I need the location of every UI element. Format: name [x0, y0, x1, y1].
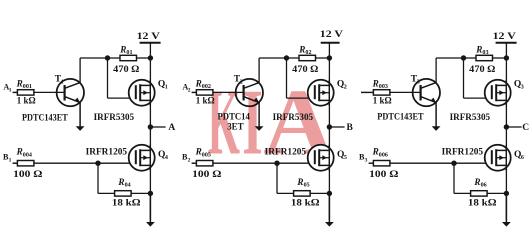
- label R06: [473, 177, 486, 189]
- power terminal +12V bar: [140, 42, 161, 44]
- wire: [13, 162, 18, 164]
- svg-text:5: 5: [344, 155, 347, 161]
- wire to rail: [316, 57, 330, 59]
- svg-text:12 V: 12 V: [137, 32, 160, 42]
- wire to R: [454, 192, 471, 194]
- svg-text:04: 04: [125, 183, 131, 189]
- label R05: [296, 177, 309, 189]
- label R003: [372, 78, 388, 90]
- svg-text:R: R: [195, 78, 202, 88]
- svg-text:1: 1: [9, 88, 12, 94]
- wire collector up: [258, 58, 260, 83]
- ground (source of Q): [325, 193, 334, 226]
- wire gate branch horizontal: [108, 97, 136, 99]
- svg-text:100 Ω: 100 Ω: [13, 170, 43, 180]
- node label B3: [359, 152, 368, 163]
- wire 12V rail / output column: [505, 43, 507, 220]
- junction gate/R: [274, 161, 279, 166]
- svg-text:2: 2: [344, 85, 347, 91]
- label R04: [117, 177, 130, 189]
- MOSFET Q4 (IRFR1205): [129, 145, 155, 171]
- svg-text:3: 3: [521, 85, 524, 91]
- svg-text:12 V: 12 V: [320, 30, 343, 40]
- ground (emitter of T1): [76, 103, 85, 131]
- junction node C: [504, 124, 509, 129]
- label T1: [55, 75, 64, 86]
- wire: [192, 162, 197, 164]
- svg-text:R: R: [16, 147, 23, 157]
- label Q5: [337, 150, 347, 161]
- svg-text:470 Ω: 470 Ω: [292, 65, 319, 75]
- wire to base: [34, 91, 65, 93]
- wire node B stub: [329, 126, 344, 128]
- resistor R006 (100 Ω): [373, 161, 390, 166]
- svg-text:PDTC14: PDTC14: [218, 113, 251, 123]
- label Q2: [337, 80, 347, 91]
- wire down to R: [453, 163, 455, 193]
- power terminal +12V bar: [496, 42, 517, 44]
- svg-text:PDTC143ET: PDTC143ET: [377, 113, 424, 123]
- svg-text:1: 1: [165, 85, 168, 91]
- svg-text:18 kΩ: 18 kΩ: [112, 199, 141, 209]
- svg-text:3ET: 3ET: [227, 122, 244, 132]
- node label A1: [3, 83, 11, 94]
- svg-text:B: B: [347, 123, 354, 133]
- label R005: [195, 147, 211, 159]
- svg-text:12 V: 12 V: [493, 32, 516, 42]
- wire down to R: [276, 163, 278, 193]
- svg-text:IRFR1205: IRFR1205: [86, 148, 128, 158]
- svg-text:004: 004: [23, 152, 32, 158]
- wire 12V rail / output column: [149, 43, 151, 220]
- wire node A stub: [150, 126, 165, 128]
- resistor R003 (1 kΩ): [373, 90, 390, 95]
- MOSFET Q1 (IRFR5305): [129, 80, 155, 106]
- resistor R001 (1 kΩ): [17, 90, 34, 95]
- wire gate branch horizontal: [464, 97, 492, 99]
- svg-text:1: 1: [9, 157, 12, 163]
- svg-text:005: 005: [202, 152, 211, 158]
- svg-text:IRFR1205: IRFR1205: [265, 148, 307, 158]
- svg-text:A: A: [168, 123, 175, 133]
- svg-text:R: R: [372, 147, 379, 157]
- junction rail/R bottom: [148, 191, 153, 196]
- wire to rail: [137, 57, 151, 59]
- junction collector/R/gate: [284, 55, 289, 60]
- svg-text:R: R: [298, 44, 305, 54]
- svg-text:R: R: [117, 177, 124, 187]
- svg-text:4: 4: [165, 155, 168, 161]
- svg-text:006: 006: [379, 152, 388, 158]
- wire: [369, 162, 374, 164]
- resistor R04 (18 kΩ): [115, 191, 132, 196]
- wire R to rail: [131, 192, 150, 194]
- svg-text:IRFR5305: IRFR5305: [273, 113, 314, 123]
- MOSFET Q2 (IRFR5305): [308, 80, 334, 106]
- MOSFET Q5 (IRFR1205): [308, 145, 334, 171]
- svg-text:IRFR1205: IRFR1205: [442, 148, 484, 158]
- label T3: [411, 75, 420, 86]
- svg-text:2: 2: [188, 157, 191, 163]
- wire collector up: [435, 58, 437, 83]
- wire to gate of bottom MOSFET: [213, 162, 315, 164]
- junction node B: [327, 124, 332, 129]
- svg-text:R: R: [473, 177, 480, 187]
- wire to gate of bottom MOSFET: [34, 162, 136, 164]
- label R01: [119, 44, 132, 56]
- label R006: [372, 147, 388, 159]
- junction rail/R bottom: [327, 191, 332, 196]
- svg-text:R: R: [475, 44, 482, 54]
- wire top: [80, 57, 120, 59]
- wire top: [259, 57, 299, 59]
- resistor R06 (18 kΩ): [471, 191, 488, 196]
- junction rail/R: [327, 55, 332, 60]
- svg-text:100 Ω: 100 Ω: [192, 170, 222, 180]
- svg-text:470 Ω: 470 Ω: [113, 65, 140, 75]
- node label B1: [3, 152, 12, 163]
- resistor R005 (100 Ω): [196, 161, 213, 166]
- label R001: [16, 78, 32, 90]
- svg-text:18 kΩ: 18 kΩ: [291, 199, 320, 209]
- junction collector/R/gate: [461, 55, 466, 60]
- label Q3: [514, 80, 524, 91]
- ground (source of Q): [146, 193, 155, 226]
- node label B2: [182, 152, 191, 163]
- svg-text:R: R: [119, 44, 126, 54]
- wire to R: [277, 192, 294, 194]
- svg-text:6: 6: [521, 155, 524, 161]
- wire: [192, 91, 197, 93]
- junction gate/R: [95, 161, 100, 166]
- transistor T3 (NPN PDTC143ET): [413, 79, 440, 106]
- svg-text:R: R: [296, 177, 303, 187]
- label Q4: [158, 150, 168, 161]
- junction rail/R bottom: [504, 191, 509, 196]
- svg-text:3: 3: [365, 157, 368, 163]
- label Q1: [158, 80, 168, 91]
- svg-text:R: R: [372, 78, 379, 88]
- wire down to R: [97, 163, 99, 193]
- wire top: [436, 57, 476, 59]
- transistor T2 (NPN PDTC143ET): [236, 79, 263, 106]
- junction rail/R: [504, 55, 509, 60]
- resistor R002 (1 kΩ): [196, 90, 213, 95]
- wire: [13, 91, 18, 93]
- wire gate branch vertical: [463, 58, 465, 98]
- wire R to rail: [310, 192, 329, 194]
- resistor R05 (18 kΩ): [294, 191, 311, 196]
- wire gate branch vertical: [107, 58, 109, 98]
- label T2: [234, 75, 243, 86]
- svg-text:18 kΩ: 18 kΩ: [468, 199, 497, 209]
- svg-text:IRFR5305: IRFR5305: [450, 113, 491, 123]
- label R002: [195, 78, 211, 90]
- svg-text:100 Ω: 100 Ω: [369, 170, 399, 180]
- MOSFET Q3 (IRFR5305): [485, 80, 511, 106]
- wire gate branch vertical: [286, 58, 288, 98]
- ground (emitter of T3): [432, 103, 441, 131]
- wire to gate of bottom MOSFET: [390, 162, 492, 164]
- svg-text:IRFR5305: IRFR5305: [94, 113, 135, 123]
- wire to base: [213, 91, 244, 93]
- junction rail/R: [148, 55, 153, 60]
- wire to base: [390, 91, 421, 93]
- svg-text:05: 05: [304, 183, 310, 189]
- label R004: [16, 147, 32, 159]
- svg-text:1 kΩ: 1 kΩ: [373, 96, 392, 106]
- label Q6: [514, 150, 524, 161]
- wire to rail: [493, 57, 507, 59]
- svg-text:C: C: [522, 123, 529, 133]
- wire node C stub: [506, 126, 521, 128]
- label R02: [298, 44, 311, 56]
- power terminal +12V bar: [321, 42, 340, 44]
- label R03: [475, 44, 488, 56]
- resistor R02 (470 Ω): [299, 55, 316, 60]
- junction node A: [148, 124, 153, 129]
- resistor R03 (470 Ω): [476, 55, 493, 60]
- svg-text:470 Ω: 470 Ω: [469, 65, 496, 75]
- svg-text:R: R: [16, 78, 23, 88]
- svg-text:2: 2: [188, 88, 191, 94]
- junction gate/R: [451, 161, 456, 166]
- svg-text:R: R: [195, 147, 202, 157]
- node label A2: [182, 83, 190, 94]
- MOSFET Q6 (IRFR1205): [485, 145, 511, 171]
- svg-text:1 kΩ: 1 kΩ: [196, 96, 215, 106]
- wire: [361, 91, 373, 93]
- ground (emitter of T2): [255, 103, 264, 131]
- svg-text:1 kΩ: 1 kΩ: [17, 96, 36, 106]
- svg-text:06: 06: [481, 183, 487, 189]
- wire 12V rail / output column: [328, 43, 330, 220]
- wire to R: [98, 192, 115, 194]
- wire collector up: [79, 58, 81, 83]
- resistor R01 (470 Ω): [120, 55, 137, 60]
- transistor T1 (NPN PDTC143ET): [57, 79, 84, 106]
- resistor R004 (100 Ω): [17, 161, 34, 166]
- wire R to rail: [487, 192, 506, 194]
- wire gate branch horizontal: [287, 97, 315, 99]
- svg-text:PDTC143ET: PDTC143ET: [22, 113, 68, 123]
- junction collector/R/gate: [105, 55, 110, 60]
- ground (source of Q): [502, 193, 511, 226]
